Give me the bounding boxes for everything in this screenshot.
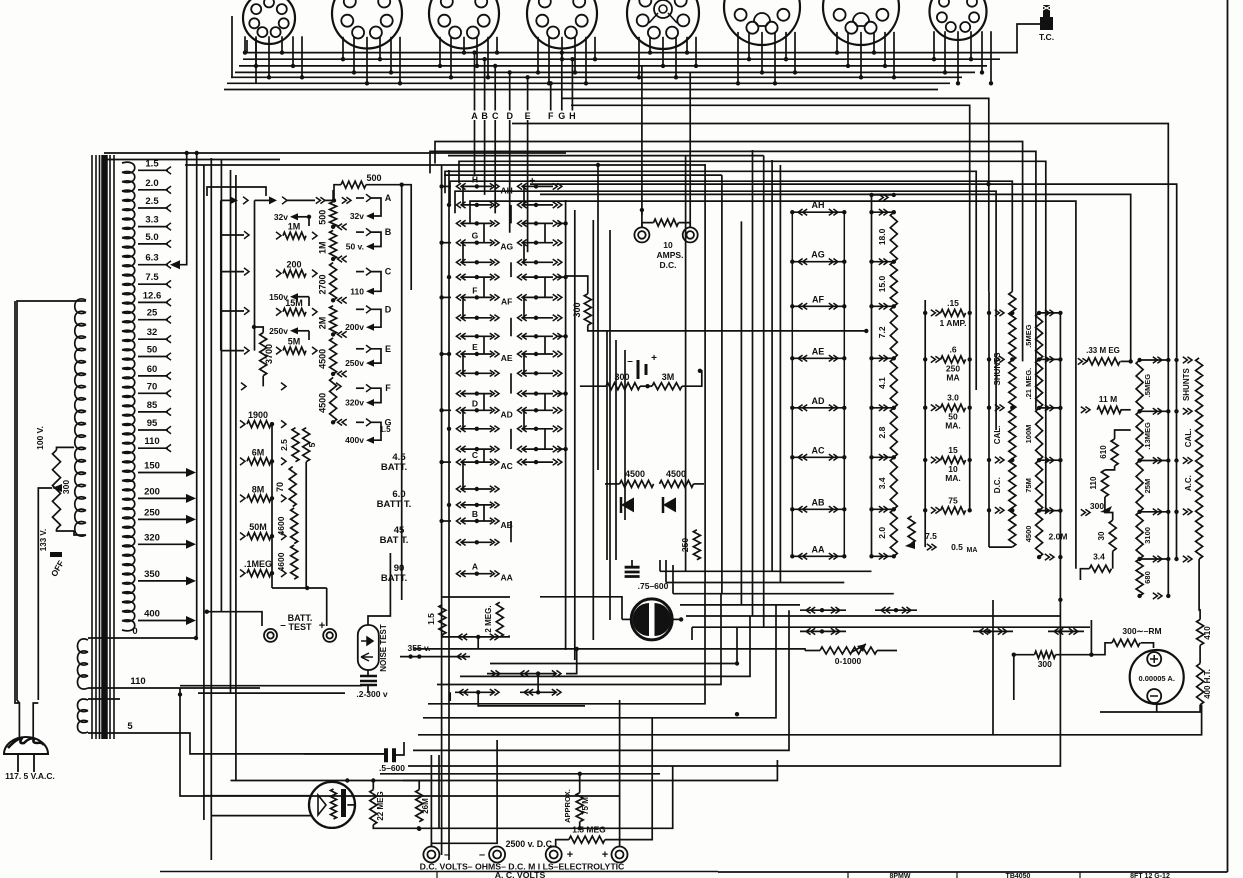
wire <box>605 483 620 485</box>
wire primary top <box>17 301 86 703</box>
junction <box>735 661 739 665</box>
svg-text:8M: 8M <box>252 484 265 494</box>
svg-text:75: 75 <box>948 495 958 505</box>
wire <box>619 700 621 847</box>
resistor column .5MEG-4500 <box>1024 310 1063 561</box>
wire <box>597 165 599 470</box>
svg-text:2 MEG.: 2 MEG. <box>484 605 493 632</box>
node labels A-H <box>471 50 575 121</box>
wire <box>1100 705 1200 712</box>
terminal electrolytic <box>612 847 628 863</box>
wire <box>448 170 450 860</box>
contact <box>1081 407 1090 413</box>
contact <box>458 634 467 640</box>
contact <box>312 308 317 316</box>
wire <box>609 230 611 620</box>
wire <box>673 618 681 620</box>
capacitor .5-600 <box>379 748 405 773</box>
wire <box>326 588 328 626</box>
svg-text:AG: AG <box>500 242 513 252</box>
contact <box>240 420 245 428</box>
svg-text:250v: 250v <box>269 326 288 336</box>
svg-text:2.5: 2.5 <box>145 196 159 207</box>
wire <box>1080 569 1089 580</box>
svg-text:1.5: 1.5 <box>426 613 436 625</box>
wire <box>305 462 307 588</box>
svg-text:5: 5 <box>307 442 317 447</box>
socket V5 <box>627 0 699 49</box>
contact <box>276 308 281 316</box>
wire <box>877 650 897 652</box>
contact <box>338 256 347 262</box>
wire <box>679 223 691 227</box>
junction <box>195 151 199 155</box>
svg-text:300: 300 <box>61 480 71 494</box>
wire <box>455 191 996 430</box>
wire <box>203 165 205 820</box>
wire <box>423 605 776 718</box>
wire <box>366 185 411 290</box>
svg-text:4500: 4500 <box>318 349 328 369</box>
svg-text:A: A <box>472 562 478 572</box>
contact <box>312 347 317 355</box>
svg-text:32v: 32v <box>350 211 364 221</box>
wire <box>672 565 674 594</box>
svg-text:F: F <box>385 383 391 393</box>
noise test lamp <box>358 624 388 672</box>
svg-text:NOISE TEST: NOISE TEST <box>379 624 388 672</box>
junction <box>331 257 335 261</box>
svg-text:A.C.: A.C. <box>1184 475 1193 491</box>
socket V4 <box>527 0 597 49</box>
junction <box>371 778 375 782</box>
svg-text:100M: 100M <box>1024 425 1033 444</box>
wire <box>704 164 706 583</box>
svg-text:A: A <box>471 111 478 121</box>
svg-text:CAL.: CAL. <box>993 426 1002 445</box>
wire bus <box>224 89 938 91</box>
junction <box>417 827 421 831</box>
wire <box>779 165 781 583</box>
junction <box>735 712 739 716</box>
wire <box>401 185 403 600</box>
wire rail <box>988 292 990 547</box>
contact <box>338 419 347 425</box>
terminal ohms <box>489 847 505 863</box>
wire bus <box>247 52 1018 54</box>
wire shunt rail2 <box>969 313 971 510</box>
contact 6.3 <box>166 261 171 269</box>
svg-text:410: 410 <box>1203 626 1212 640</box>
wire <box>694 483 705 485</box>
tap 200v <box>345 322 374 332</box>
diode D2 <box>663 497 676 513</box>
svg-text:E: E <box>525 111 531 121</box>
wire <box>356 308 364 310</box>
svg-text:4600: 4600 <box>276 552 286 571</box>
resistor 110 <box>1101 470 1108 497</box>
junction <box>1058 598 1062 602</box>
wire loop187 <box>207 187 266 196</box>
socket V7 <box>823 0 899 45</box>
selector A <box>366 193 392 216</box>
wire chain top <box>332 190 334 202</box>
wire <box>437 594 721 685</box>
svg-text:TEST: TEST <box>288 622 312 632</box>
wire <box>356 271 364 273</box>
svg-text:3M: 3M <box>662 372 675 382</box>
junction <box>270 496 274 500</box>
svg-text:95: 95 <box>147 418 158 429</box>
resistor 7.5 <box>908 516 915 543</box>
contact <box>281 495 286 503</box>
junction <box>252 325 256 329</box>
svg-text:–: – <box>530 199 536 210</box>
wire primary bottom <box>74 531 86 535</box>
tap 110 <box>350 286 374 296</box>
arrow rheostat <box>52 484 62 492</box>
svg-text:2.0: 2.0 <box>145 178 158 189</box>
wire <box>540 597 622 620</box>
contact <box>338 371 347 377</box>
wire <box>104 159 280 161</box>
tap 50 v. <box>346 242 374 252</box>
junction <box>305 586 309 590</box>
resistor 30 <box>1109 520 1116 551</box>
wire <box>368 553 390 625</box>
wire <box>356 387 364 389</box>
svg-text:200: 200 <box>144 486 160 497</box>
svg-text:6M: 6M <box>252 447 265 457</box>
contact <box>1081 509 1090 515</box>
svg-text:AF: AF <box>501 296 512 306</box>
wire plug lead 2 <box>33 703 38 737</box>
wire <box>444 174 722 176</box>
wire <box>430 755 432 846</box>
wire <box>622 618 631 620</box>
svg-text:B: B <box>385 227 392 237</box>
svg-text:AH: AH <box>812 200 825 210</box>
wire <box>198 692 345 694</box>
resistor 1.5 <box>439 605 446 635</box>
wire <box>180 688 620 796</box>
wire <box>408 600 1060 766</box>
svg-text:MA: MA <box>967 547 978 554</box>
wire bus <box>231 76 962 78</box>
svg-text:0.00005 A.: 0.00005 A. <box>1138 674 1174 683</box>
resistor 3.4b <box>1089 565 1111 572</box>
wire <box>624 350 626 520</box>
transformer core <box>92 155 114 739</box>
resistor 5M <box>283 347 306 354</box>
resistor 300RM <box>1112 639 1140 646</box>
svg-text:TB4050: TB4050 <box>1006 873 1031 878</box>
svg-text:B: B <box>472 509 478 519</box>
svg-text:SHUNTS: SHUNTS <box>1182 367 1191 401</box>
resistor 300 line cord <box>53 450 61 529</box>
wire <box>659 560 661 571</box>
selector F <box>366 383 391 402</box>
terminal 10A b <box>683 227 698 242</box>
contact <box>281 533 286 541</box>
svg-text:4600: 4600 <box>276 516 286 535</box>
wire <box>642 223 654 227</box>
junction <box>1089 653 1093 657</box>
switch ladder AH-AA <box>790 200 846 559</box>
svg-text:AB: AB <box>812 497 825 507</box>
wire <box>986 182 990 186</box>
contact <box>269 196 277 204</box>
svg-text:26M: 26M <box>421 798 430 814</box>
junction <box>596 163 600 167</box>
wire <box>356 348 364 350</box>
svg-text:–: – <box>479 849 485 861</box>
wire <box>740 221 742 605</box>
contact <box>338 224 347 230</box>
svg-text:B: B <box>481 111 488 121</box>
wire <box>993 705 1202 735</box>
wire <box>565 200 567 650</box>
junction <box>408 654 412 658</box>
resistor 250 <box>693 530 700 560</box>
resistor 50M <box>247 533 271 540</box>
svg-text:AH: AH <box>501 185 513 195</box>
svg-text:.33 M EG: .33 M EG <box>1086 346 1120 355</box>
svg-text:–: – <box>627 356 633 367</box>
junction <box>345 778 349 782</box>
wire <box>1105 466 1115 470</box>
tap 250v <box>269 326 309 340</box>
wire <box>445 171 976 390</box>
svg-text:6.3: 6.3 <box>145 253 158 264</box>
svg-text:1.5: 1.5 <box>379 425 391 434</box>
wire <box>562 98 989 291</box>
svg-text:350: 350 <box>144 569 160 580</box>
wire <box>1199 559 1200 620</box>
wire <box>57 447 75 450</box>
svg-text:D: D <box>506 111 513 121</box>
svg-text:G: G <box>558 111 565 121</box>
svg-text:500: 500 <box>366 173 381 183</box>
junction <box>1012 653 1016 657</box>
svg-text:+: + <box>602 849 608 861</box>
wire <box>1013 655 1015 700</box>
wire <box>185 164 705 166</box>
ballast lamp <box>309 782 355 828</box>
wire <box>334 185 341 201</box>
wire <box>470 201 1076 569</box>
resistor DC cal chain <box>1009 292 1016 547</box>
wire <box>640 385 652 387</box>
svg-text:25M: 25M <box>1143 479 1152 494</box>
svg-text:10: 10 <box>663 240 673 250</box>
resistor .33MEG <box>1087 358 1120 365</box>
wire <box>403 760 777 781</box>
plug 117.5 VAC <box>4 737 55 781</box>
svg-text:680: 680 <box>1143 571 1152 584</box>
svg-text:AG: AG <box>811 250 825 260</box>
wire top rail <box>872 194 894 196</box>
svg-text:300: 300 <box>1038 659 1052 669</box>
svg-text:2.5: 2.5 <box>279 439 289 451</box>
junction <box>645 384 649 388</box>
wire T.C. lead <box>1017 24 1040 53</box>
svg-text:+: + <box>651 353 657 364</box>
wire <box>1141 643 1154 648</box>
svg-text:70: 70 <box>147 381 158 392</box>
wire <box>104 152 566 154</box>
contact <box>879 194 888 200</box>
winding 0-110 <box>78 639 89 689</box>
wire node lead <box>509 120 511 233</box>
svg-text:7.5: 7.5 <box>925 531 937 541</box>
svg-text:610: 610 <box>1099 445 1108 459</box>
wire <box>631 560 633 567</box>
tap 320v <box>345 398 374 408</box>
svg-text:3700: 3700 <box>264 344 274 364</box>
resistor 3700 <box>260 333 267 376</box>
svg-text:300: 300 <box>1090 501 1104 511</box>
svg-text:5M: 5M <box>288 337 301 347</box>
wire <box>1112 551 1114 569</box>
svg-text:70: 70 <box>275 482 285 492</box>
wire ladder top <box>221 199 232 201</box>
wire <box>540 194 1131 360</box>
resistor 4500c <box>620 480 654 487</box>
svg-text:–: – <box>444 849 450 861</box>
resistor 1M <box>283 232 306 239</box>
svg-text:AA: AA <box>501 573 513 583</box>
junction <box>331 298 335 302</box>
resistor column right <box>1136 357 1170 599</box>
wire <box>574 210 576 660</box>
svg-text:5: 5 <box>127 721 133 732</box>
wire bottom rail <box>373 766 672 828</box>
svg-text:.6: .6 <box>949 344 956 354</box>
wire <box>438 755 440 829</box>
contact <box>230 196 238 204</box>
svg-text:2.8: 2.8 <box>877 426 887 438</box>
wire node lead <box>494 120 496 213</box>
contacts under ladder <box>800 607 917 613</box>
diode D1 <box>621 497 634 513</box>
svg-text:500: 500 <box>318 210 328 225</box>
wire node lead <box>527 120 529 252</box>
svg-text:300: 300 <box>572 302 582 317</box>
wire rail c2 <box>1059 313 1061 600</box>
wire <box>680 604 800 606</box>
wire <box>682 370 702 386</box>
svg-text:+: + <box>529 176 535 187</box>
resistor 200 <box>283 270 306 277</box>
contact <box>1078 358 1087 364</box>
resistor 4500d <box>660 480 694 487</box>
wire <box>304 753 386 755</box>
wire <box>441 165 443 855</box>
wire top15 <box>287 199 315 201</box>
svg-text:.21 MEG.: .21 MEG. <box>1024 368 1033 400</box>
contact <box>338 331 347 337</box>
svg-text:50M: 50M <box>249 522 267 532</box>
svg-text:5.0: 5.0 <box>145 232 158 243</box>
svg-text:–: – <box>280 620 286 631</box>
wire <box>556 840 569 847</box>
wire <box>1199 645 1201 663</box>
selector B <box>366 227 392 246</box>
wire <box>641 210 643 215</box>
contact <box>281 458 286 466</box>
wire <box>606 330 608 560</box>
resistor 300d <box>1035 651 1056 658</box>
wire <box>210 158 212 860</box>
svg-text:3.3: 3.3 <box>145 215 158 226</box>
svg-text:32: 32 <box>147 327 158 338</box>
svg-text:.2-300 v: .2-300 v <box>356 689 387 699</box>
svg-text:.5MEG: .5MEG <box>1024 324 1033 348</box>
wire 0 line <box>88 637 196 639</box>
wire <box>592 220 594 640</box>
arrow <box>905 541 915 549</box>
capacitor .2-300v <box>356 676 387 699</box>
top-cap connector T.C. <box>1039 5 1054 42</box>
svg-text:100 V.: 100 V. <box>35 426 45 450</box>
junction <box>640 208 644 212</box>
svg-text:G: G <box>472 231 479 241</box>
wire <box>356 421 364 423</box>
resistor 610 <box>1111 439 1118 466</box>
junction <box>698 369 702 373</box>
svg-text:BATT.: BATT. <box>381 573 407 584</box>
transformer taps <box>138 158 196 625</box>
svg-text:.75–600: .75–600 <box>638 581 669 591</box>
resistor 15M <box>283 308 306 315</box>
svg-text:AC: AC <box>501 461 513 471</box>
wire <box>448 155 764 157</box>
wire <box>666 582 844 584</box>
wire <box>400 656 470 658</box>
svg-text:SHUNTS: SHUNTS <box>993 352 1002 386</box>
contact <box>312 270 317 278</box>
svg-text:200: 200 <box>286 259 301 269</box>
meter M1 <box>631 599 672 640</box>
svg-text:CAL.: CAL. <box>1184 429 1193 448</box>
wire <box>347 804 355 806</box>
svg-text:.5–600: .5–600 <box>379 763 405 773</box>
svg-text:300∼–RM: 300∼–RM <box>1122 626 1161 636</box>
wire <box>1115 430 1131 439</box>
wire rail <box>871 195 873 556</box>
border bottom <box>718 871 1228 873</box>
wire <box>413 649 805 651</box>
wire <box>356 197 364 199</box>
socket V3 <box>429 0 499 49</box>
wire <box>579 774 581 793</box>
wire box <box>442 596 510 598</box>
resistor 410 <box>1197 620 1204 646</box>
resistor AC cal chain <box>1196 358 1203 559</box>
socket V8 <box>930 0 987 40</box>
svg-text:150: 150 <box>144 461 160 472</box>
svg-text:22 MEG: 22 MEG <box>376 791 385 820</box>
wire top2 <box>325 199 334 201</box>
resistor 1M <box>330 230 337 259</box>
svg-text:30: 30 <box>1097 531 1106 540</box>
svg-text:110: 110 <box>1089 476 1098 489</box>
wire 5 line <box>88 698 120 700</box>
svg-text:355 v.: 355 v. <box>407 643 430 653</box>
wire bus <box>243 58 1000 60</box>
svg-text:50: 50 <box>147 345 158 356</box>
